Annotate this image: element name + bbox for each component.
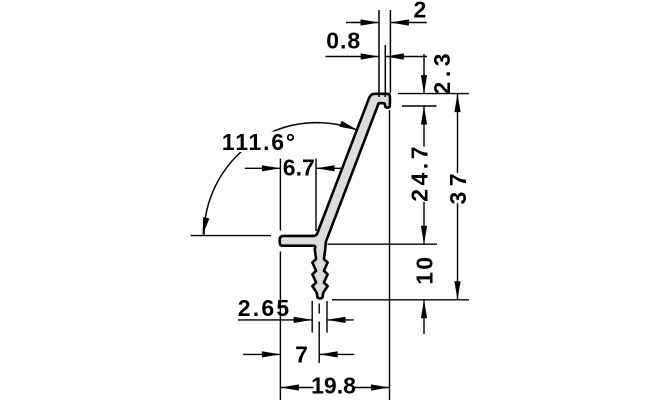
svg-text:2.3: 2.3 (429, 49, 455, 94)
svg-text:24.7: 24.7 (406, 143, 432, 202)
blade line L3 (389, 10, 391, 93)
profile body (angled bar, hook head, T-bar, barbed stem) (280, 94, 390, 299)
dim 7 (243, 353, 280, 355)
dim 2.65 (238, 319, 312, 321)
svg-text:6.7: 6.7 (283, 155, 315, 181)
dim 19.8 (280, 387, 313, 389)
angle arc 111.6 (204, 123, 357, 236)
blade line L2 (384, 45, 386, 97)
ref line B (402, 105, 437, 107)
dim 2.3 (423, 54, 425, 94)
svg-text:2: 2 (414, 0, 428, 23)
ext line E5 (389, 110, 391, 400)
ref line C (328, 243, 438, 245)
dim 37 (457, 94, 459, 174)
ext line E2 (315, 159, 317, 232)
dim 0.8 lines (326, 56, 380, 58)
dim 2 lines (346, 22, 379, 24)
ref line A (398, 93, 469, 95)
svg-text:111.6°: 111.6° (222, 129, 297, 155)
svg-text:7: 7 (295, 341, 309, 367)
svg-text:0.8: 0.8 (326, 28, 361, 54)
centerline (318, 304, 320, 314)
dim 6.7 (245, 167, 281, 169)
dim 24.7 (423, 106, 425, 147)
svg-text:2.65: 2.65 (238, 295, 292, 321)
svg-text:10: 10 (411, 255, 437, 285)
blade line L1 (378, 10, 380, 97)
datum line (191, 235, 272, 237)
ext line E1 (279, 159, 281, 231)
svg-text:37: 37 (445, 168, 471, 205)
ref line D (332, 299, 469, 301)
ext lines 2.65 (311, 301, 313, 333)
dim 10 (423, 300, 425, 334)
svg-text:19.8: 19.8 (311, 372, 356, 398)
